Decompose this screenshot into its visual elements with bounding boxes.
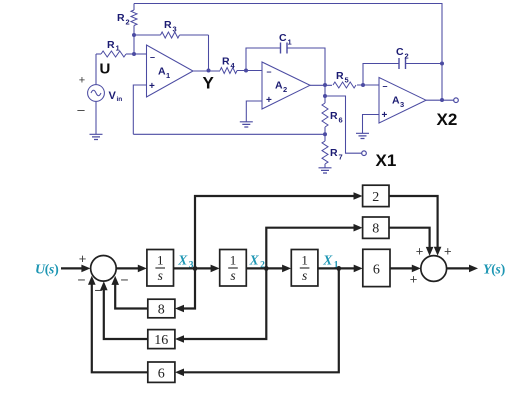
- svg-text:3: 3: [173, 25, 177, 34]
- svg-text:X2: X2: [437, 110, 458, 129]
- svg-text:7: 7: [339, 153, 343, 162]
- source polarity minus: [77, 102, 85, 117]
- svg-text:A: A: [275, 80, 283, 92]
- svg-text:2: 2: [283, 85, 287, 94]
- svg-text:1: 1: [301, 252, 308, 267]
- ground below Vin: [90, 134, 103, 139]
- svg-text:8: 8: [158, 303, 165, 318]
- block gain 6 (output path): [363, 249, 390, 286]
- svg-text:s: s: [158, 268, 163, 283]
- wire X1 tap to terminal: [325, 96, 366, 156]
- wire node to R1/A1 inverting input: [133, 35, 135, 54]
- node R6-R7 feedback junction: [323, 132, 327, 136]
- svg-text:1: 1: [230, 252, 237, 267]
- wire A2 noninverting input to ground: [246, 101, 262, 122]
- node A3 inverting input: [361, 83, 365, 87]
- node X1 tap: [323, 94, 327, 98]
- svg-text:+: +: [382, 110, 388, 121]
- source polarity plus: [79, 75, 85, 87]
- svg-text:C: C: [279, 32, 287, 44]
- svg-text:6: 6: [373, 263, 380, 278]
- svg-text:–: –: [267, 67, 272, 77]
- node X3: [193, 266, 198, 271]
- S1 sign minus bottom: [94, 282, 102, 298]
- wire gain6 to summing junction S2: [390, 265, 421, 273]
- block gain 8 (feedforward): [363, 217, 389, 238]
- S1 sign minus right: [120, 272, 128, 288]
- svg-text:C: C: [396, 46, 404, 58]
- wire X2 to gain 16 feedback: [175, 268, 266, 342]
- svg-text:R: R: [164, 19, 172, 31]
- source Vin: [88, 54, 105, 134]
- wire U(s) to summing junction S1: [61, 265, 90, 273]
- resistor R3: [134, 19, 209, 38]
- svg-text:A: A: [158, 66, 166, 78]
- block integrator 1/s (X3): [147, 250, 174, 287]
- label X1: [376, 151, 397, 170]
- node A2 inverting input: [244, 69, 248, 73]
- svg-text:+: +: [266, 95, 272, 106]
- op-amp A1: [147, 45, 194, 97]
- op-amp A2: [262, 62, 310, 109]
- svg-text:X1: X1: [376, 151, 397, 170]
- label Vin: [109, 90, 123, 103]
- capacitor C1: [246, 32, 325, 85]
- summing junction S1: [91, 255, 117, 281]
- svg-text:Y: Y: [203, 74, 215, 93]
- svg-text:3: 3: [400, 100, 404, 109]
- S1 sign minus left: [77, 272, 85, 288]
- svg-text:2: 2: [405, 52, 409, 61]
- capacitor C2: [363, 46, 442, 85]
- S1 sign plus: [79, 251, 87, 266]
- wire feedback net to R6-R7 junction: [133, 133, 325, 135]
- ground below R7: [319, 168, 332, 173]
- wire A3 noninverting input to ground: [363, 115, 380, 134]
- svg-text:+: +: [444, 244, 452, 259]
- svg-text:R: R: [336, 70, 344, 82]
- label Y: [203, 74, 215, 93]
- resistor R2: [117, 4, 137, 36]
- svg-text:–: –: [383, 81, 388, 91]
- label X3: [177, 252, 194, 270]
- svg-text:2: 2: [372, 190, 379, 205]
- resistor R4: [220, 56, 262, 74]
- label U(s) input: [35, 262, 59, 278]
- svg-text:–: –: [77, 102, 85, 117]
- svg-text:+: +: [410, 272, 418, 287]
- svg-text:U: U: [100, 61, 111, 78]
- svg-text:5: 5: [345, 76, 349, 85]
- node A2 output: [310, 83, 332, 87]
- S2 sign plus top-left: [416, 244, 424, 259]
- resistor R1: [96, 39, 134, 57]
- svg-text:s: s: [302, 268, 307, 283]
- S2 sign plus bottom-left: [410, 272, 418, 287]
- svg-text:R: R: [107, 39, 115, 51]
- label U: [100, 61, 111, 78]
- node X1: [336, 266, 341, 271]
- wire gain2 to S2: [389, 196, 441, 256]
- svg-text:R: R: [330, 110, 338, 122]
- svg-text:+: +: [149, 81, 155, 92]
- svg-text:): ): [54, 262, 59, 277]
- resistor R6: [322, 85, 343, 134]
- svg-text:+: +: [79, 75, 85, 87]
- wire X3 to gain 2 (feedforward): [195, 192, 363, 268]
- wire integrator1 to integrator2: [174, 265, 220, 273]
- block integrator 1/s (X1): [291, 250, 318, 287]
- block gain 16 (feedback): [148, 330, 175, 349]
- svg-text:in: in: [117, 96, 123, 103]
- wire S2 to Y(s) output: [447, 265, 478, 273]
- wire integrator3 to gain 6: [318, 265, 363, 273]
- ground below A2: [240, 122, 253, 127]
- label X2: [437, 110, 458, 129]
- svg-text:+: +: [79, 251, 87, 266]
- node A3 output X2: [426, 98, 458, 103]
- wire gain6fb to S1: [88, 276, 148, 373]
- node R2-R3 junction: [132, 33, 136, 37]
- svg-text:1: 1: [288, 38, 292, 47]
- block gain 2 (feedforward): [363, 185, 389, 206]
- wire A1 noninverting input to feedback net: [133, 85, 146, 134]
- node R1-R2-A1 junction: [132, 52, 136, 56]
- wire gain8 to S2: [389, 228, 433, 256]
- svg-text:1: 1: [157, 252, 164, 267]
- block integrator 1/s (X2): [220, 250, 247, 287]
- block gain 6 (feedback): [148, 362, 175, 382]
- wire gain16 to S1: [100, 281, 148, 339]
- wire X3 to gain 8 feedback: [175, 268, 195, 312]
- block gain 8 (feedback): [148, 299, 175, 318]
- wire gain8fb to S1: [111, 276, 147, 309]
- wire top feedback from R2 to A3 output: [134, 4, 442, 101]
- svg-text:4: 4: [231, 61, 236, 70]
- svg-text:): ): [501, 262, 506, 277]
- wire R3 down to node Y: [208, 35, 210, 71]
- svg-text:+: +: [416, 244, 424, 259]
- wire X2 to gain 8 (feedforward): [266, 224, 362, 269]
- summing junction S2: [421, 256, 447, 282]
- svg-text:s: s: [230, 268, 235, 283]
- label X2: [249, 252, 266, 270]
- svg-text:6: 6: [158, 367, 165, 382]
- svg-text:A: A: [392, 95, 400, 107]
- node Y (A1 output): [193, 69, 220, 73]
- svg-text:V: V: [109, 90, 117, 102]
- wire X1 to gain 6 feedback: [175, 268, 339, 376]
- svg-text:X: X: [177, 252, 188, 267]
- svg-text:8: 8: [372, 222, 379, 237]
- node C2 top-wire junction: [440, 62, 444, 66]
- svg-text:R: R: [330, 147, 338, 159]
- svg-text:R: R: [222, 56, 230, 68]
- svg-text:−: −: [120, 272, 128, 288]
- ground below A3: [356, 133, 369, 138]
- S2 sign plus top-right: [444, 244, 452, 259]
- svg-text:X: X: [249, 252, 260, 267]
- svg-text:X: X: [322, 252, 333, 267]
- resistor R5: [333, 70, 379, 88]
- svg-text:R: R: [117, 12, 125, 24]
- svg-text:–: –: [150, 52, 155, 62]
- svg-text:2: 2: [126, 18, 130, 27]
- svg-text:−: −: [77, 272, 85, 288]
- node X2: [264, 266, 269, 271]
- op-amp A3: [379, 78, 426, 124]
- wire integrator2 to integrator3: [246, 265, 291, 273]
- wire S1 to integrator 1: [116, 265, 147, 273]
- svg-text:16: 16: [154, 333, 168, 348]
- svg-text:6: 6: [339, 116, 343, 125]
- label Y(s) output: [483, 262, 505, 278]
- resistor R7: [322, 134, 343, 167]
- wire to A1 inverting input: [134, 53, 147, 55]
- svg-text:1: 1: [166, 71, 170, 80]
- label X1: [322, 252, 339, 270]
- svg-text:1: 1: [116, 44, 120, 53]
